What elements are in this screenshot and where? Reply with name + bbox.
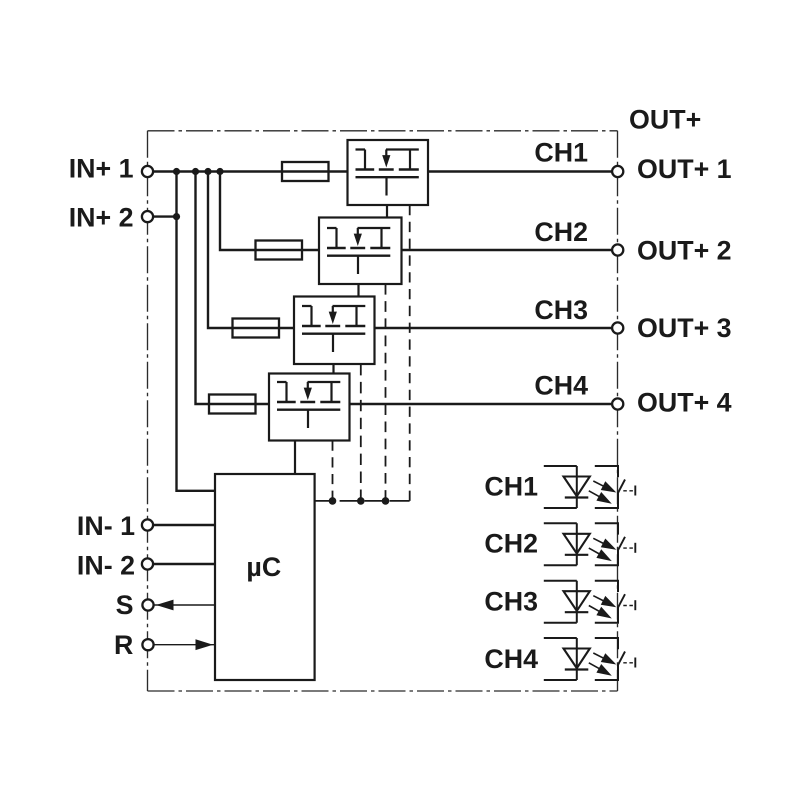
svg-text:R: R: [114, 630, 133, 660]
svg-text:OUT+ 3: OUT+ 3: [637, 313, 732, 343]
svg-text:IN- 1: IN- 1: [77, 511, 135, 541]
svg-text:CH1: CH1: [534, 138, 588, 168]
svg-text:OUT+ 2: OUT+ 2: [637, 236, 732, 266]
svg-text:IN+ 2: IN+ 2: [69, 202, 134, 232]
svg-text:CH2: CH2: [484, 529, 538, 559]
svg-text:OUT+ 1: OUT+ 1: [637, 154, 732, 184]
svg-text:IN+ 1: IN+ 1: [69, 154, 134, 184]
svg-text:CH2: CH2: [534, 217, 588, 247]
svg-text:CH4: CH4: [484, 644, 538, 674]
svg-text:CH3: CH3: [484, 587, 538, 617]
svg-text:CH1: CH1: [484, 472, 538, 502]
svg-text:CH3: CH3: [534, 295, 588, 325]
svg-text:S: S: [116, 590, 134, 620]
svg-text:OUT+: OUT+: [629, 105, 701, 135]
svg-text:µC: µC: [246, 552, 281, 582]
svg-text:CH4: CH4: [534, 370, 588, 400]
svg-text:IN- 2: IN- 2: [77, 551, 135, 581]
svg-text:OUT+ 4: OUT+ 4: [637, 387, 732, 417]
